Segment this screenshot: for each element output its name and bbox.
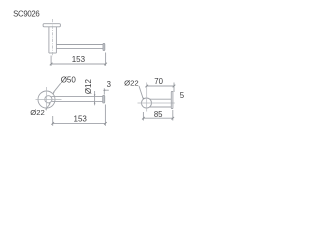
- dim 153 extension right: [104, 105, 106, 126]
- centerline vertical: [46, 87, 48, 111]
- post top wire: [150, 98, 172, 100]
- tick right: [104, 122, 107, 125]
- dim D12 arrow bottom: [94, 101, 96, 103]
- wall flange cap: [43, 24, 60, 27]
- post circle D22: [45, 96, 52, 103]
- svg-text:Ø22: Ø22: [30, 108, 45, 117]
- end disc circle D22: [142, 98, 152, 108]
- dim 153 extension left: [52, 116, 54, 126]
- post bottom wire: [150, 106, 172, 108]
- dim 153 extension left: [50, 56, 52, 66]
- tick left: [142, 117, 145, 120]
- arm end cap: [103, 44, 105, 51]
- tick left: [50, 63, 53, 66]
- svg-text:Ø12: Ø12: [84, 78, 93, 94]
- leader D22 arrow: [142, 97, 144, 99]
- svg-text:153: 153: [74, 114, 88, 123]
- dim 3 extension: [103, 88, 105, 94]
- centerline vertical: [146, 83, 148, 112]
- svg-text:SC9026: SC9026: [13, 9, 39, 18]
- dim 85 extension left: [142, 112, 144, 121]
- post right wire: [55, 27, 57, 53]
- tick right: [172, 117, 175, 120]
- svg-text:85: 85: [154, 110, 163, 119]
- dim 70 line: [147, 85, 174, 87]
- dim D12 arrow top: [94, 94, 96, 96]
- svg-text:70: 70: [154, 77, 163, 86]
- leader D22: [139, 86, 143, 99]
- post bottom wire: [49, 52, 57, 54]
- svg-text:3: 3: [107, 80, 111, 89]
- svg-text:5: 5: [180, 91, 185, 100]
- svg-text:Ø22: Ø22: [124, 78, 139, 87]
- leader D22: [46, 104, 51, 110]
- arm top wire: [56, 44, 103, 46]
- bar bottom wire: [52, 100, 103, 102]
- svg-text:153: 153: [72, 55, 86, 64]
- dim 85 line: [143, 117, 172, 119]
- wall plate: [171, 92, 173, 109]
- leader D50 arrow: [53, 92, 55, 94]
- dim 153 line: [53, 122, 106, 124]
- dim 70 extension right: [173, 83, 175, 93]
- centerline horizontal: [36, 99, 62, 101]
- tick left: [145, 85, 148, 88]
- post left wire: [48, 27, 50, 53]
- leader D22 arrow: [49, 102, 51, 104]
- dim 85 extension right: [172, 110, 174, 121]
- bar top wire: [52, 96, 103, 98]
- leader D50: [53, 83, 61, 93]
- tick right: [173, 85, 176, 88]
- centerline horizontal: [138, 102, 175, 104]
- arm bottom wire: [56, 47, 103, 49]
- tick right: [104, 63, 107, 66]
- dim 153 extension right: [105, 53, 107, 66]
- centerline: [52, 19, 54, 57]
- flange circle D50: [38, 91, 55, 108]
- dim 3 arrow: [103, 89, 105, 91]
- dim D12 line: [94, 91, 96, 105]
- dim 153 line: [51, 63, 106, 65]
- svg-text:Ø50: Ø50: [61, 75, 77, 84]
- bar end cap: [103, 95, 105, 103]
- dim 3 line: [104, 89, 109, 91]
- tick left: [51, 122, 54, 125]
